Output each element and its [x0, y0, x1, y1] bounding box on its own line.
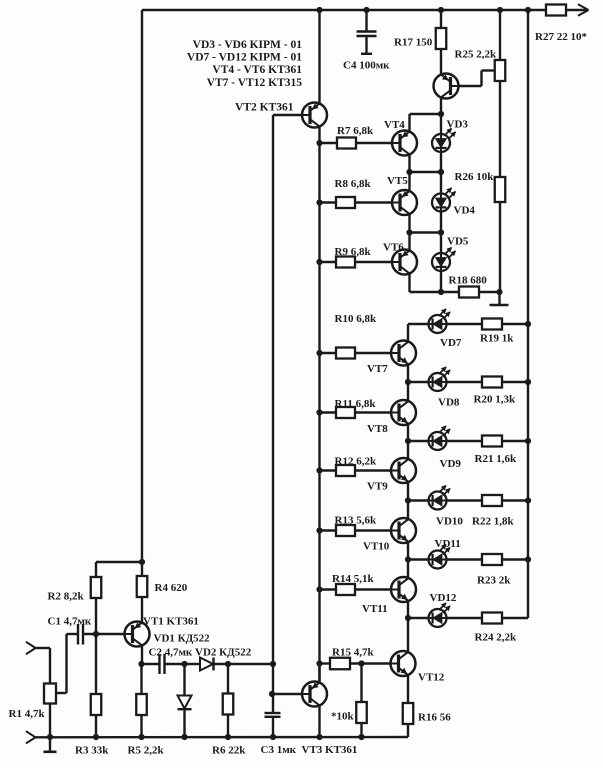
svg-text:R7 6,8k: R7 6,8k	[337, 125, 374, 137]
svg-text:R4 620: R4 620	[155, 582, 188, 594]
svg-text:R11 6,8k: R11 6,8k	[335, 398, 377, 410]
svg-text:R21 1,6k: R21 1,6k	[475, 453, 517, 465]
svg-text:R20 1,3k: R20 1,3k	[474, 394, 516, 406]
svg-text:VT2 KT361: VT2 KT361	[235, 102, 294, 114]
svg-text:VD7: VD7	[440, 337, 462, 349]
svg-text:R13 5,6k: R13 5,6k	[335, 515, 377, 527]
svg-text:R12 6,2k: R12 6,2k	[335, 456, 377, 468]
svg-text:R1 4,7k: R1 4,7k	[9, 708, 46, 720]
svg-text:VD9: VD9	[440, 458, 462, 470]
svg-text:VT4: VT4	[384, 119, 405, 131]
svg-text:VD3 - VD6 KIPM - 01: VD3 - VD6 KIPM - 01	[193, 39, 303, 51]
svg-text:C4 100мк: C4 100мк	[343, 60, 390, 72]
svg-text:VT7: VT7	[367, 363, 388, 375]
svg-text:VD10: VD10	[436, 516, 463, 528]
svg-text:VT11: VT11	[362, 603, 388, 615]
svg-text:VT8: VT8	[367, 423, 388, 435]
svg-text:R16 56: R16 56	[418, 712, 451, 724]
svg-text:VD4: VD4	[454, 205, 476, 217]
svg-text:VT6: VT6	[383, 242, 404, 254]
svg-text:VT7 - VT12 KT315: VT7 - VT12 KT315	[207, 77, 303, 89]
svg-text:R17 150: R17 150	[394, 37, 433, 49]
svg-text:R23 2k: R23 2k	[477, 575, 511, 587]
svg-text:C1 4,7мк: C1 4,7мк	[48, 616, 92, 628]
svg-text:VT9: VT9	[367, 481, 388, 493]
svg-text:R3 33k: R3 33k	[75, 745, 109, 757]
svg-text:R19 1k: R19 1k	[480, 333, 514, 345]
svg-text:R2 8,2k: R2 8,2k	[48, 591, 85, 603]
svg-text:VD7 - VD12 KIPM - 01: VD7 - VD12 KIPM - 01	[187, 52, 302, 64]
svg-text:R9 6,8k: R9 6,8k	[335, 246, 372, 258]
svg-text:VT3 KT361: VT3 KT361	[302, 744, 358, 756]
svg-text:R26 10k: R26 10k	[455, 171, 495, 183]
svg-text:R22 1,8k: R22 1,8k	[472, 516, 514, 528]
svg-text:VT1 KT361: VT1 KT361	[143, 616, 199, 628]
svg-text:VD3: VD3	[447, 119, 469, 131]
svg-text:C2 4,7мк VD2 КД522: C2 4,7мк VD2 КД522	[149, 647, 252, 659]
svg-text:VT12: VT12	[418, 672, 445, 684]
svg-text:R24 2,2k: R24 2,2k	[475, 632, 517, 644]
svg-text:*10k: *10k	[331, 711, 355, 723]
svg-text:R27 22 10*: R27 22 10*	[535, 31, 587, 43]
svg-text:VT10: VT10	[363, 541, 390, 553]
svg-text:R5 2,2k: R5 2,2k	[128, 745, 165, 757]
svg-text:R25 2,2k: R25 2,2k	[455, 49, 497, 61]
svg-text:VD1 КД522: VD1 КД522	[154, 633, 211, 645]
svg-text:R10 6,8k: R10 6,8k	[335, 313, 377, 325]
svg-text:R14 5,1k: R14 5,1k	[332, 573, 374, 585]
svg-text:VD12: VD12	[430, 592, 457, 604]
svg-text:VD8: VD8	[438, 397, 460, 409]
svg-text:R15 4,7k: R15 4,7k	[332, 647, 374, 659]
svg-text:R18 680: R18 680	[449, 275, 488, 287]
svg-text:R8 6,8k: R8 6,8k	[335, 178, 372, 190]
svg-text:VT4 - VT6 KT361: VT4 - VT6 KT361	[212, 64, 302, 76]
svg-text:C3 1мк: C3 1мк	[261, 744, 297, 756]
svg-text:VD11: VD11	[435, 538, 461, 550]
svg-text:R6 22k: R6 22k	[212, 745, 246, 757]
svg-text:VT5: VT5	[387, 175, 408, 187]
svg-text:VD5: VD5	[447, 236, 469, 248]
